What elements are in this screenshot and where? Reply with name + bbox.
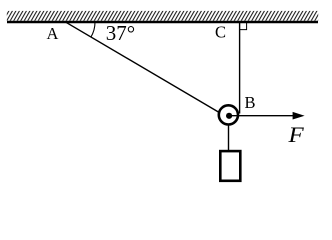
pulley B circle xyxy=(219,105,238,124)
right-angle mark at C xyxy=(240,23,247,30)
angle arc at A xyxy=(91,22,95,37)
svg-text:37°: 37° xyxy=(106,21,135,45)
ceiling line xyxy=(7,21,318,24)
wire rope A to pulley xyxy=(66,22,218,112)
force arrow F line xyxy=(229,115,295,117)
wire rope C to pulley xyxy=(239,21,241,114)
block (hanging weight) xyxy=(220,151,240,181)
force arrow F head xyxy=(293,112,305,120)
wire rope pulley to block xyxy=(228,124,230,152)
svg-text:A: A xyxy=(47,24,59,43)
svg-text:C: C xyxy=(215,23,226,42)
pulley axle dot xyxy=(226,113,232,119)
ceiling hatching xyxy=(7,11,318,21)
svg-text:F: F xyxy=(287,122,304,147)
svg-text:B: B xyxy=(245,93,256,112)
